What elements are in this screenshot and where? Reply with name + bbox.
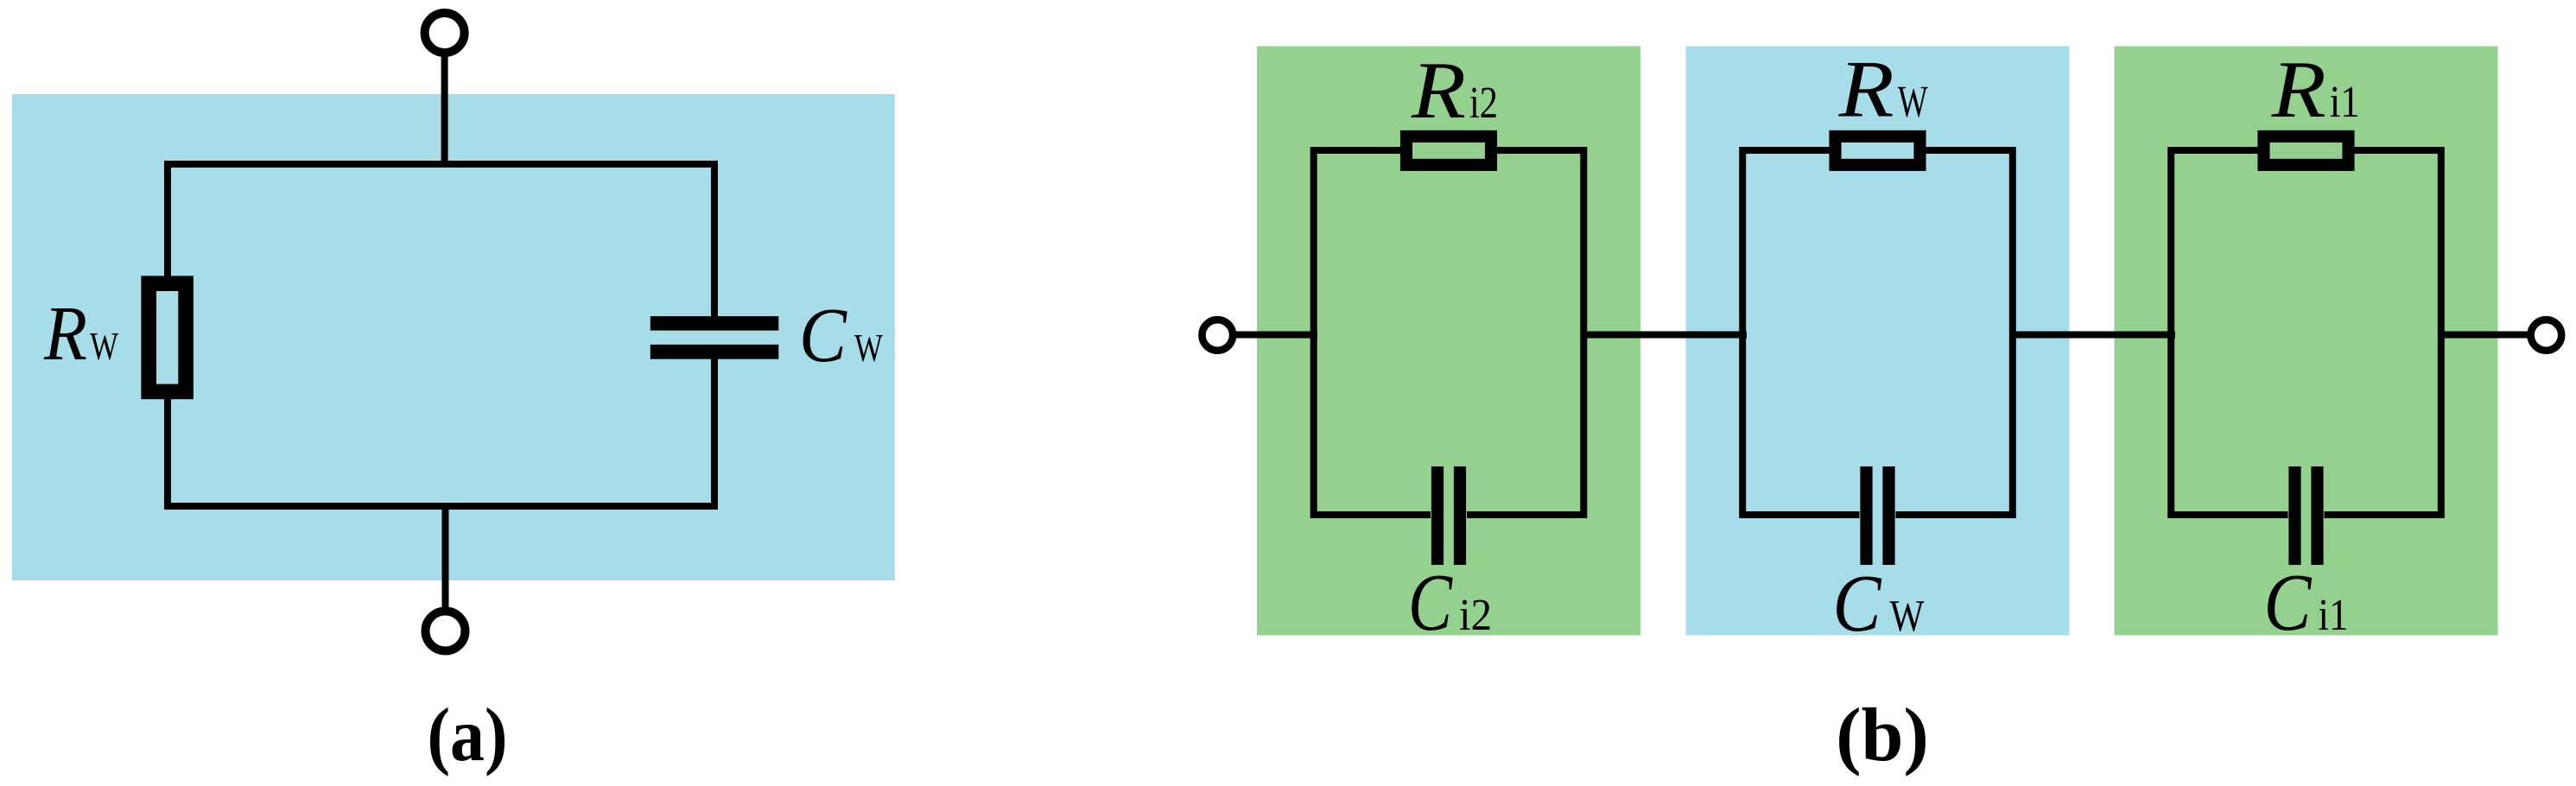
- svg-text:(a): (a): [428, 694, 508, 777]
- svg-text:(b): (b): [1836, 694, 1929, 777]
